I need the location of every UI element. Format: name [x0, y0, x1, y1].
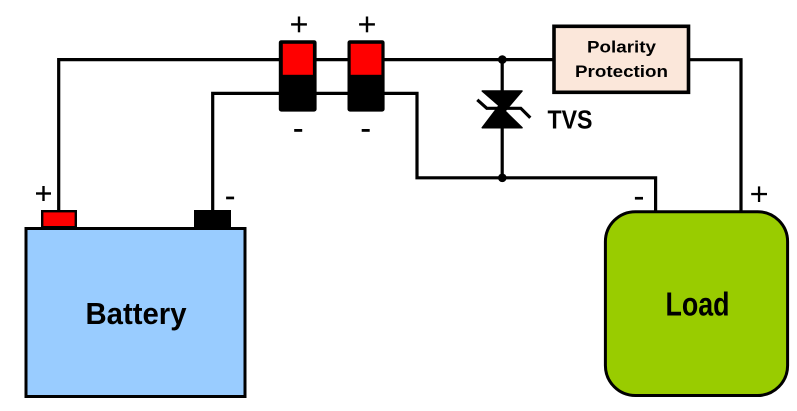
wire negative rail: battery - terminal up, right through fuse blocks, down and right to load -	[213, 93, 656, 211]
TVS diode (bidirectional)	[477, 91, 530, 128]
label F1 -	[294, 129, 302, 132]
fuse block F1 body	[279, 40, 317, 111]
label F2 +	[359, 17, 375, 33]
label battery -	[226, 197, 234, 200]
label F2 -	[362, 129, 370, 132]
wire positive rail: battery + terminal up and right to polarity protection input	[59, 60, 553, 211]
battery negative terminal	[195, 211, 230, 227]
label battery +	[36, 186, 51, 201]
fuse block F2 body	[348, 40, 385, 111]
svg-text:Protection: Protection	[575, 62, 668, 81]
battery	[26, 229, 245, 397]
wire polarity protection output to load +	[688, 60, 741, 212]
label load -	[635, 197, 643, 200]
wire TVS branch	[501, 60, 504, 178]
svg-text:Polarity: Polarity	[587, 37, 657, 56]
label load +	[751, 186, 767, 202]
svg-text:TVS: TVS	[548, 104, 593, 134]
junction node bottom (negative rail / TVS)	[498, 174, 507, 183]
load	[605, 212, 787, 396]
junction node top (positive rail / TVS)	[498, 55, 507, 64]
polarity protection module	[554, 26, 689, 92]
label F1 +	[291, 17, 307, 33]
battery positive terminal	[42, 211, 76, 227]
svg-text:Battery: Battery	[86, 296, 187, 331]
svg-text:Load: Load	[666, 286, 730, 323]
